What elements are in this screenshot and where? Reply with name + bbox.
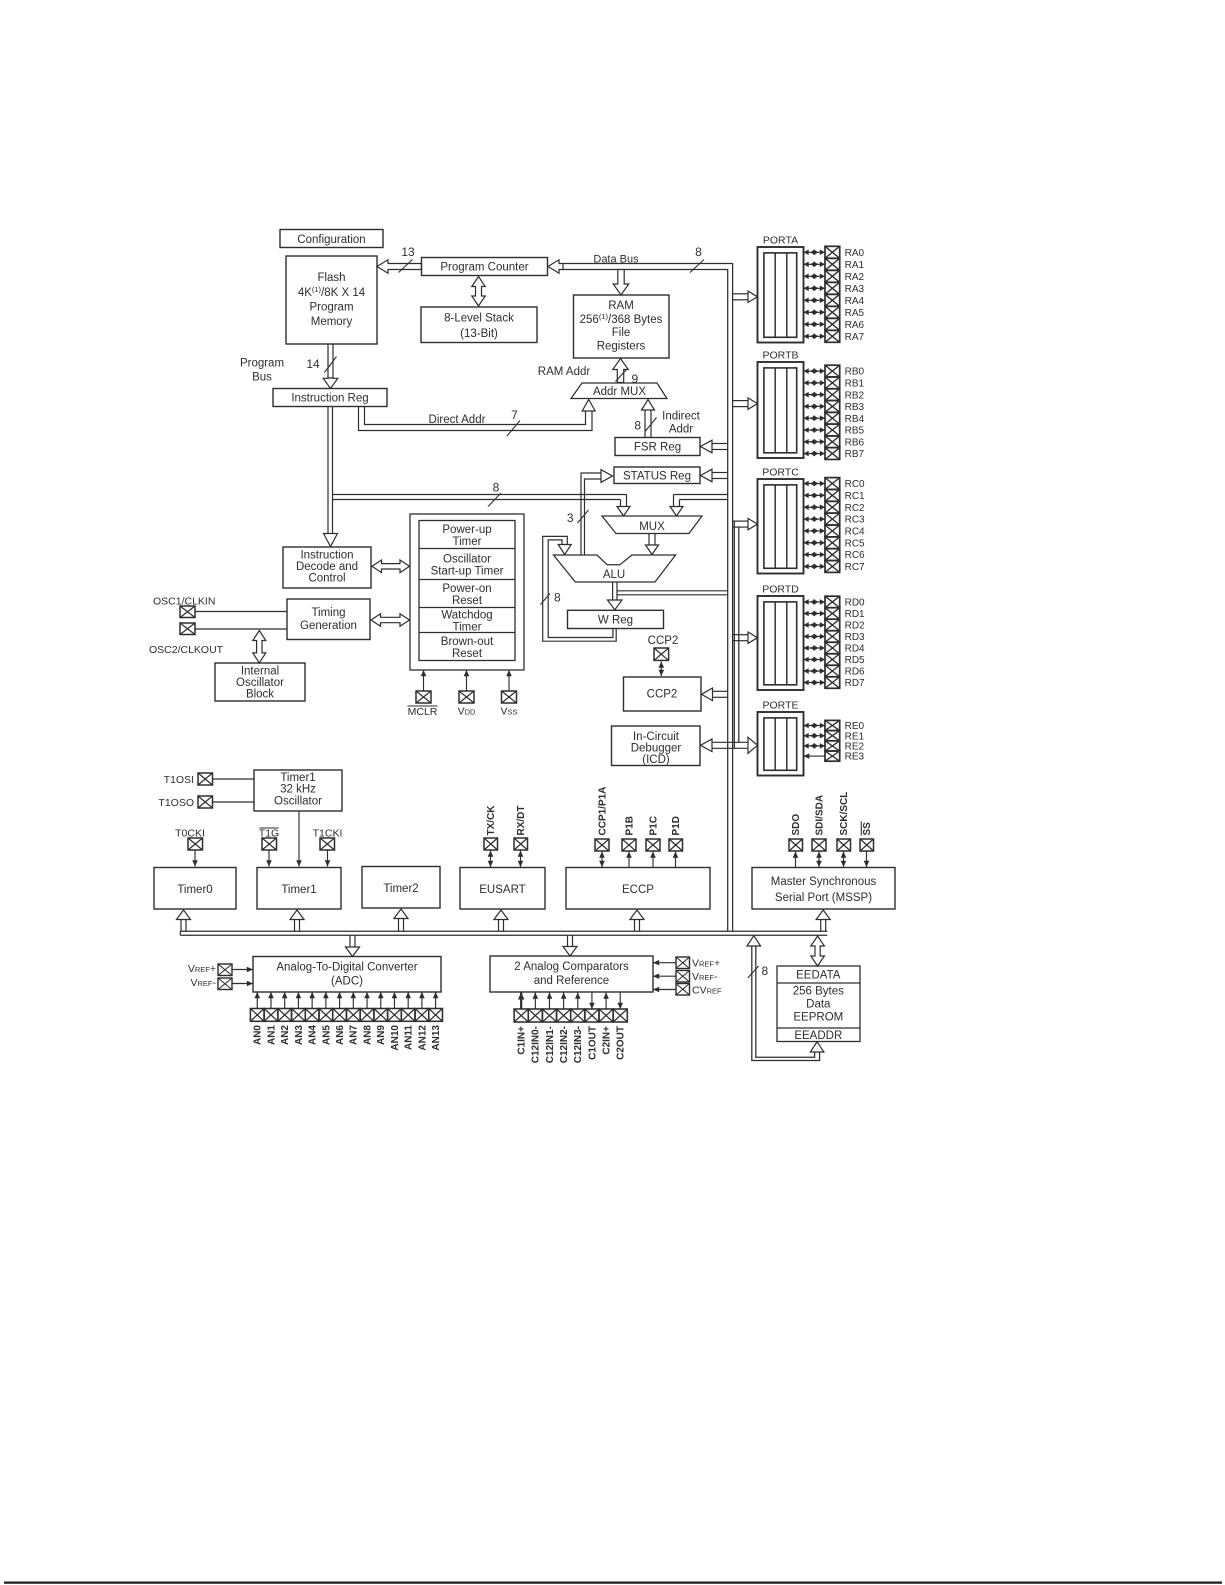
pin RC7 x-box and arrow bbox=[804, 561, 866, 574]
STATUS reg box bbox=[614, 467, 700, 484]
label VREF+ right bbox=[692, 958, 720, 970]
svg-text:C2OUT: C2OUT bbox=[616, 1026, 627, 1060]
svg-text:RC2: RC2 bbox=[845, 503, 865, 514]
wire T1OSO to timer1 oscillator bbox=[213, 801, 255, 803]
svg-text:RD1: RD1 bbox=[845, 609, 865, 620]
arrow CCP2 pin to CCP2 module bbox=[659, 662, 665, 677]
label VREF- left bbox=[190, 977, 216, 989]
SDO pin x-box and arrow bbox=[789, 839, 803, 867]
pin RE3 x-box and arrow bbox=[804, 751, 865, 763]
svg-text:RD6: RD6 bbox=[845, 667, 865, 678]
timer0 box bbox=[154, 868, 236, 910]
wire OSC2 to timing generation bbox=[195, 628, 287, 630]
W reg feedback loop to ALU, 8 wide bbox=[541, 536, 617, 641]
svg-text:256(1)/368 Bytes: 256(1)/368 Bytes bbox=[580, 312, 663, 326]
pin RB5 x-box and arrow bbox=[804, 424, 865, 436]
svg-text:RD7: RD7 bbox=[845, 678, 865, 689]
svg-text:Instruction: Instruction bbox=[300, 550, 353, 562]
svg-text:MCLR: MCLR bbox=[408, 706, 438, 718]
svg-text:SDI/SDA: SDI/SDA bbox=[814, 795, 825, 836]
label T1OSO bbox=[158, 797, 194, 809]
MUX trapezoid bbox=[602, 516, 702, 534]
svg-text:Program: Program bbox=[309, 302, 353, 314]
AN8 pin x-box, arrow and label bbox=[360, 992, 374, 1045]
svg-text:Timer: Timer bbox=[453, 536, 482, 548]
svg-text:Control: Control bbox=[308, 573, 345, 585]
addr mux trapezoid bbox=[571, 383, 667, 399]
C1OUT pin x-box, arrow and label bbox=[585, 992, 599, 1060]
svg-text:Oscillator: Oscillator bbox=[236, 677, 284, 689]
label T1OSI bbox=[164, 774, 194, 786]
svg-text:P1B: P1B bbox=[624, 816, 635, 835]
label VREF- right bbox=[692, 971, 718, 983]
literal bus from instruction reg to MUX, 8 wide bbox=[333, 493, 631, 516]
C12IN2- pin x-box, arrow and label bbox=[557, 993, 571, 1064]
pin RD6 x-box and arrow bbox=[804, 665, 866, 677]
timer1 box bbox=[257, 868, 341, 910]
label T1G bbox=[259, 828, 279, 840]
bus width 7 slash bbox=[507, 408, 520, 436]
P1C pin x-box and arrow bbox=[646, 839, 660, 867]
svg-text:C12IN2-: C12IN2- bbox=[559, 1026, 570, 1063]
svg-text:RC3: RC3 bbox=[845, 515, 865, 526]
W reg box bbox=[568, 610, 664, 628]
PORTD label bbox=[762, 584, 799, 596]
T1OSO pin x-box bbox=[198, 796, 213, 808]
internal oscillator block box bbox=[215, 663, 305, 701]
svg-text:RA0: RA0 bbox=[845, 248, 865, 259]
svg-text:CVREF: CVREF bbox=[692, 985, 722, 997]
label SDO rotated bbox=[791, 814, 802, 836]
svg-text:RAM Addr: RAM Addr bbox=[538, 366, 591, 378]
data bus wire to program counter and vertical data bus bbox=[548, 260, 733, 932]
indirect addr wire: FSR to addr mux, 8 wide bbox=[634, 400, 656, 438]
label P1D rotated bbox=[671, 816, 682, 835]
label T0CKI bbox=[175, 828, 205, 840]
FSR reg box bbox=[615, 438, 700, 456]
svg-text:PORTB: PORTB bbox=[763, 350, 799, 362]
svg-text:VDD: VDD bbox=[458, 706, 476, 718]
timer2 box bbox=[362, 867, 440, 909]
pin RB1 x-box and arrow bbox=[804, 377, 865, 389]
svg-text:FSR Reg: FSR Reg bbox=[634, 442, 681, 454]
svg-text:RB2: RB2 bbox=[845, 390, 865, 401]
label CCP1/P1A rotated bbox=[597, 787, 608, 836]
svg-text:AN8: AN8 bbox=[362, 1025, 373, 1045]
svg-text:RB1: RB1 bbox=[845, 378, 865, 389]
VSS pin x-box and arrow bbox=[502, 670, 517, 703]
OSC1 pin x-box bbox=[180, 606, 195, 618]
svg-text:MUX: MUX bbox=[639, 521, 665, 533]
C12IN0- pin x-box, arrow and label bbox=[528, 993, 542, 1064]
svg-text:VREF+: VREF+ bbox=[188, 963, 216, 975]
arrow data bus to CCP2 bbox=[702, 688, 728, 701]
T0CKI pin x-box and arrow bbox=[188, 838, 203, 867]
svg-text:Debugger: Debugger bbox=[631, 743, 682, 755]
svg-text:RB7: RB7 bbox=[845, 449, 865, 460]
direct addr wire: instruction reg to addr mux, 7 wide bbox=[359, 400, 596, 431]
VREF- pin x-box and arrow into ADC bbox=[218, 978, 253, 990]
timing generation box bbox=[287, 599, 370, 640]
svg-text:Timer: Timer bbox=[453, 622, 482, 634]
T1CKI pin x-box and arrow bbox=[320, 838, 335, 867]
svg-text:RC7: RC7 bbox=[845, 562, 865, 573]
pin RB7 x-box and arrow bbox=[804, 448, 865, 460]
label RAM Addr bbox=[538, 366, 591, 378]
svg-text:C12IN3-: C12IN3- bbox=[573, 1026, 584, 1063]
svg-text:8: 8 bbox=[695, 245, 702, 259]
svg-text:RA3: RA3 bbox=[845, 284, 865, 295]
pin RD4 x-box and arrow bbox=[804, 642, 866, 654]
program counter box bbox=[422, 258, 548, 276]
CVREF x-box and arrow into comparators bbox=[653, 984, 690, 996]
svg-text:Program Counter: Program Counter bbox=[440, 262, 528, 274]
EEPROM box with EEDATA and EEADDR bbox=[777, 966, 860, 1042]
svg-text:ALU: ALU bbox=[603, 569, 625, 581]
svg-text:Data: Data bbox=[806, 999, 831, 1011]
in-circuit debugger box bbox=[612, 726, 701, 766]
svg-text:EEDATA: EEDATA bbox=[796, 970, 841, 982]
pin RA0 x-box and arrow bbox=[804, 246, 865, 259]
svg-text:AN6: AN6 bbox=[335, 1025, 346, 1045]
svg-text:Addr: Addr bbox=[669, 424, 693, 436]
svg-text:Timer1: Timer1 bbox=[280, 772, 315, 784]
svg-text:VREF-: VREF- bbox=[190, 977, 216, 989]
AN0 pin x-box, arrow and label bbox=[250, 992, 264, 1045]
AN5 pin x-box, arrow and label bbox=[319, 992, 333, 1045]
pin RC1 x-box and arrow bbox=[804, 489, 866, 502]
CCP2 pin x-box bbox=[654, 648, 669, 660]
label TX/CK rotated bbox=[486, 805, 497, 836]
svg-text:Analog-To-Digital Converter: Analog-To-Digital Converter bbox=[276, 962, 417, 974]
svg-text:EUSART: EUSART bbox=[479, 884, 525, 896]
arrow bus to MSSP bbox=[816, 910, 830, 931]
RX/DT pin x-box and arrow bbox=[514, 838, 528, 867]
pin RD1 x-box and arrow bbox=[804, 608, 866, 620]
svg-text:CCP2: CCP2 bbox=[648, 635, 679, 647]
SDI/SDA pin x-box and arrow bbox=[812, 839, 826, 867]
AN7 pin x-box, arrow and label bbox=[346, 992, 360, 1045]
svg-text:T1OSI: T1OSI bbox=[164, 774, 194, 786]
AN13 pin x-box, arrow and label bbox=[429, 992, 443, 1051]
label program bus bbox=[240, 358, 284, 384]
svg-text:PORTA: PORTA bbox=[763, 235, 798, 247]
svg-text:PORTE: PORTE bbox=[763, 700, 799, 712]
label OSC1/CLKIN bbox=[153, 596, 215, 608]
svg-text:AN10: AN10 bbox=[390, 1025, 401, 1051]
svg-text:VSS: VSS bbox=[500, 706, 517, 718]
svg-text:RA2: RA2 bbox=[845, 272, 865, 283]
svg-text:RD0: RD0 bbox=[845, 598, 865, 609]
AN3 pin x-box, arrow and label bbox=[292, 992, 306, 1045]
13-bit bus arrow: program counter to flash bbox=[377, 260, 422, 274]
svg-text:RA1: RA1 bbox=[845, 260, 865, 271]
svg-text:Timer2: Timer2 bbox=[383, 883, 418, 895]
arrow data bus to FSR reg bbox=[701, 440, 728, 453]
label 8 on EEPROM loop bbox=[762, 964, 769, 978]
arrow bus to EUSART bbox=[494, 910, 508, 931]
svg-text:RB3: RB3 bbox=[845, 402, 865, 413]
svg-text:14: 14 bbox=[306, 357, 320, 371]
svg-text:RX/DT: RX/DT bbox=[516, 806, 527, 836]
program bus from flash to instruction reg, 14 wide bbox=[323, 344, 338, 389]
svg-text:T1OSO: T1OSO bbox=[158, 797, 194, 809]
wire data bus to MUX right input bbox=[670, 495, 728, 516]
PORTB label bbox=[763, 350, 799, 362]
svg-text:4K(1)/8K X 14: 4K(1)/8K X 14 bbox=[298, 285, 366, 299]
label data bus bbox=[593, 254, 639, 266]
wire ICD to data bus to PORTE bbox=[701, 737, 758, 753]
svg-text:RC5: RC5 bbox=[845, 538, 865, 549]
SS pin x-box and arrow bbox=[860, 839, 874, 867]
pin RB0 x-box and arrow bbox=[804, 365, 865, 377]
arrow bus to ECCP bbox=[630, 910, 644, 931]
label 13 bbox=[401, 245, 415, 259]
svg-text:Watchdog: Watchdog bbox=[441, 610, 492, 622]
label T1CKI bbox=[313, 828, 343, 840]
instruction reg box bbox=[273, 389, 387, 407]
svg-text:RC4: RC4 bbox=[845, 527, 865, 538]
ALU trapezoid bbox=[554, 555, 676, 582]
arrow data bus to PORTD bbox=[733, 632, 758, 643]
PORTC label bbox=[762, 467, 799, 479]
arrow instruction decode to timers block bbox=[372, 560, 410, 573]
svg-text:RB0: RB0 bbox=[845, 367, 865, 378]
svg-text:RA6: RA6 bbox=[845, 320, 865, 331]
arrow bus to ADC bbox=[346, 935, 360, 956]
pin RC6 x-box and arrow bbox=[804, 549, 866, 562]
svg-text:AN12: AN12 bbox=[417, 1025, 428, 1051]
svg-text:Memory: Memory bbox=[311, 316, 353, 328]
svg-text:RAM: RAM bbox=[608, 300, 634, 312]
EEPROM address loop wire, 8 wide bbox=[747, 936, 824, 1061]
svg-text:RB5: RB5 bbox=[845, 426, 865, 437]
AN1 pin x-box, arrow and label bbox=[264, 992, 278, 1045]
T1G pin x-box and arrow bbox=[262, 838, 277, 867]
arrow addr mux up to RAM, 9 wide bbox=[613, 359, 639, 387]
AN4 pin x-box, arrow and label bbox=[305, 992, 319, 1045]
P1D pin x-box and arrow bbox=[669, 839, 683, 867]
arrow peripheral bus to EEDATA bbox=[811, 936, 825, 966]
PORTB box bbox=[758, 362, 804, 458]
svg-text:W Reg: W Reg bbox=[598, 615, 633, 627]
svg-text:13: 13 bbox=[401, 245, 415, 259]
svg-text:Addr MUX: Addr MUX bbox=[593, 386, 646, 398]
svg-text:RC6: RC6 bbox=[845, 550, 865, 561]
label SCK/SCL rotated bbox=[839, 792, 850, 836]
pin RA1 x-box and arrow bbox=[804, 258, 865, 271]
arrow bus to comparators bbox=[563, 935, 577, 956]
arrow data bus to PORTB bbox=[733, 398, 758, 409]
pin RC5 x-box and arrow bbox=[804, 537, 866, 550]
pin RA5 x-box and arrow bbox=[804, 306, 865, 319]
svg-text:CCP1/P1A: CCP1/P1A bbox=[597, 787, 608, 836]
wire timer1 oscillator to timer1 bbox=[296, 811, 302, 867]
MCLR pin x-box and arrow bbox=[416, 670, 431, 703]
svg-text:Generation: Generation bbox=[300, 620, 357, 632]
AN12 pin x-box, arrow and label bbox=[415, 992, 429, 1051]
label VSS bbox=[500, 706, 517, 718]
svg-text:8-Level Stack: 8-Level Stack bbox=[444, 313, 514, 325]
pin RB2 x-box and arrow bbox=[804, 389, 865, 401]
svg-text:Master Synchronous: Master Synchronous bbox=[771, 876, 877, 888]
svg-text:RA7: RA7 bbox=[845, 332, 865, 343]
label VREF+ left bbox=[188, 963, 216, 975]
svg-text:C12IN1-: C12IN1- bbox=[545, 1026, 556, 1063]
svg-text:VREF+: VREF+ bbox=[692, 958, 720, 970]
svg-text:SS: SS bbox=[862, 822, 873, 836]
svg-text:Block: Block bbox=[246, 689, 274, 701]
EUSART box bbox=[460, 868, 545, 910]
svg-text:AN9: AN9 bbox=[376, 1025, 387, 1045]
PORTD box bbox=[758, 596, 804, 690]
svg-text:VREF-: VREF- bbox=[692, 971, 718, 983]
OSC2 pin x-box bbox=[180, 623, 195, 635]
label P1B rotated bbox=[624, 816, 635, 835]
svg-text:8: 8 bbox=[554, 591, 561, 605]
svg-text:Start-up Timer: Start-up Timer bbox=[431, 566, 504, 578]
pin RE2 x-box and arrow bbox=[804, 741, 865, 753]
svg-text:SCK/SCL: SCK/SCL bbox=[839, 792, 850, 836]
svg-text:AN5: AN5 bbox=[321, 1025, 332, 1045]
wire MUX to ALU bbox=[646, 534, 659, 555]
flash program memory box bbox=[286, 256, 377, 344]
label RX/DT rotated bbox=[516, 806, 527, 836]
svg-text:SDO: SDO bbox=[791, 814, 802, 836]
VREF+ pin x-box and arrow into ADC bbox=[218, 964, 253, 976]
svg-text:9: 9 bbox=[632, 372, 639, 386]
svg-text:AN3: AN3 bbox=[294, 1025, 305, 1045]
pin RD7 x-box and arrow bbox=[804, 677, 866, 689]
svg-text:256 Bytes: 256 Bytes bbox=[793, 986, 844, 998]
svg-text:RE3: RE3 bbox=[845, 752, 865, 763]
svg-text:In-Circuit: In-Circuit bbox=[633, 731, 680, 743]
svg-text:Program: Program bbox=[240, 358, 284, 370]
svg-text:RD5: RD5 bbox=[845, 655, 865, 666]
svg-text:(ICD): (ICD) bbox=[642, 754, 670, 766]
svg-text:RD4: RD4 bbox=[845, 644, 865, 655]
svg-text:Flash: Flash bbox=[317, 272, 345, 284]
svg-text:P1C: P1C bbox=[648, 816, 659, 835]
AN11 pin x-box, arrow and label bbox=[401, 992, 415, 1050]
svg-text:Data Bus: Data Bus bbox=[593, 254, 639, 266]
PORTA box bbox=[758, 247, 804, 343]
svg-text:AN2: AN2 bbox=[280, 1025, 291, 1045]
label 3 bbox=[567, 511, 574, 525]
pin RD5 x-box and arrow bbox=[804, 654, 866, 666]
label MCLR bbox=[408, 706, 438, 718]
pin RC0 x-box and arrow bbox=[804, 478, 866, 491]
svg-text:RD3: RD3 bbox=[845, 632, 865, 643]
svg-text:Bus: Bus bbox=[252, 372, 272, 384]
svg-text:8: 8 bbox=[634, 419, 641, 433]
arrow data bus to PORTC bbox=[733, 518, 758, 529]
pin RC3 x-box and arrow bbox=[804, 513, 866, 526]
pin RA4 x-box and arrow bbox=[804, 294, 865, 307]
power-up timer module outer box bbox=[410, 514, 524, 670]
svg-text:Instruction Reg: Instruction Reg bbox=[291, 393, 368, 405]
power-up timer inner box with rows bbox=[419, 521, 515, 661]
C2OUT pin x-box, arrow and label bbox=[613, 992, 627, 1060]
timer1 oscillator box bbox=[254, 770, 342, 811]
ADC box bbox=[253, 957, 441, 993]
comparator box bbox=[490, 956, 653, 992]
MSSP box bbox=[752, 868, 895, 910]
svg-text:AN0: AN0 bbox=[253, 1025, 264, 1045]
svg-text:Timer1: Timer1 bbox=[281, 884, 316, 896]
svg-text:Timing: Timing bbox=[311, 607, 345, 619]
instruction decode and control box bbox=[283, 547, 371, 588]
svg-text:AN4: AN4 bbox=[308, 1025, 319, 1045]
svg-text:Reset: Reset bbox=[452, 595, 483, 607]
svg-text:8: 8 bbox=[762, 964, 769, 978]
label OSC2/CLKOUT bbox=[149, 644, 224, 656]
second vertical bus segment portC to portE bbox=[734, 521, 739, 748]
pin RA6 x-box and arrow bbox=[804, 318, 865, 331]
RAM file registers box bbox=[574, 295, 670, 358]
pin RE1 x-box and arrow bbox=[804, 731, 865, 743]
T1OSI pin x-box bbox=[198, 773, 213, 785]
SCK/SCL pin x-box and arrow bbox=[837, 839, 851, 867]
svg-text:8: 8 bbox=[493, 481, 500, 495]
svg-text:Brown-out: Brown-out bbox=[441, 636, 494, 648]
arrow bus to timer0 bbox=[177, 910, 191, 931]
svg-text:RD2: RD2 bbox=[845, 621, 865, 632]
svg-text:PORTC: PORTC bbox=[762, 467, 799, 479]
AN10 pin x-box, arrow and label bbox=[388, 992, 402, 1051]
svg-text:Configuration: Configuration bbox=[297, 234, 365, 246]
arrow data bus to PORTA bbox=[733, 291, 758, 302]
svg-text:Serial Port (MSSP): Serial Port (MSSP) bbox=[775, 892, 872, 904]
label indirect addr bbox=[662, 411, 701, 436]
svg-text:7: 7 bbox=[511, 408, 518, 422]
svg-text:RA5: RA5 bbox=[845, 308, 865, 319]
CCP2 pin label bbox=[648, 635, 679, 647]
pin RB4 x-box and arrow bbox=[804, 412, 865, 424]
pin RE0 x-box and arrow bbox=[804, 720, 865, 732]
footer rule bbox=[4, 1581, 1222, 1583]
svg-text:Oscillator: Oscillator bbox=[443, 554, 491, 566]
AN6 pin x-box, arrow and label bbox=[333, 992, 347, 1045]
bus width 8 slash bbox=[690, 245, 704, 273]
svg-text:(ADC): (ADC) bbox=[331, 976, 363, 988]
svg-text:RB6: RB6 bbox=[845, 437, 865, 448]
svg-text:RB4: RB4 bbox=[845, 414, 865, 425]
wire ALU output to W reg bbox=[608, 582, 623, 610]
svg-text:RA4: RA4 bbox=[845, 296, 865, 307]
label SS rotated with overline bbox=[861, 822, 873, 836]
svg-text:EEADDR: EEADDR bbox=[794, 1030, 842, 1042]
PORTE label bbox=[763, 700, 799, 712]
C2IN+ pin x-box, arrow and label bbox=[599, 993, 613, 1055]
P1B pin x-box and arrow bbox=[622, 839, 636, 867]
PORTA label bbox=[763, 235, 798, 247]
arrow program counter to stack bbox=[472, 277, 485, 307]
svg-text:C1OUT: C1OUT bbox=[587, 1026, 598, 1060]
svg-text:C1IN+: C1IN+ bbox=[517, 1026, 528, 1055]
svg-text:RC1: RC1 bbox=[845, 491, 865, 502]
arrow bus to timer2 bbox=[394, 909, 408, 931]
wire ALU to STATUS reg, 3 wide bbox=[578, 470, 613, 555]
svg-text:Internal: Internal bbox=[241, 666, 279, 678]
svg-text:File: File bbox=[612, 327, 631, 339]
svg-text:ECCP: ECCP bbox=[622, 884, 654, 896]
svg-text:OSC2/CLKOUT: OSC2/CLKOUT bbox=[149, 644, 224, 656]
VREF+ x-box and arrow into comparators bbox=[653, 957, 690, 969]
svg-text:AN7: AN7 bbox=[349, 1025, 360, 1045]
svg-text:Direct Addr: Direct Addr bbox=[429, 414, 486, 426]
svg-text:32 kHz: 32 kHz bbox=[280, 784, 316, 796]
